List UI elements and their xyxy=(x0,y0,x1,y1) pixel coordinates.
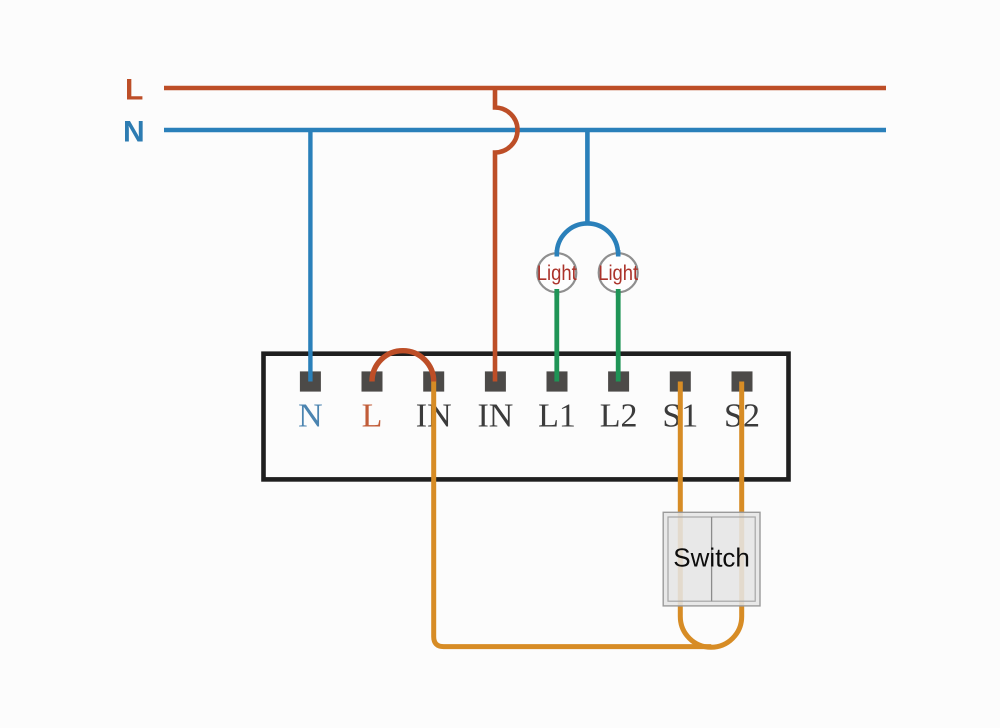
lamp LA2 xyxy=(598,253,638,292)
svg-text:L1: L1 xyxy=(538,398,576,435)
wire tip lamp 2 bottom xyxy=(616,289,621,296)
terminal L2 xyxy=(608,371,629,391)
green wire lamp 2 to terminal L2 xyxy=(616,288,621,382)
terminal L xyxy=(362,371,383,391)
svg-text:Switch: Switch xyxy=(673,543,750,573)
switch divider xyxy=(711,517,713,601)
jumper wire terminal L to terminal IN xyxy=(372,351,434,382)
svg-text:IN: IN xyxy=(477,398,513,435)
wire N rail to lamp fork xyxy=(585,130,590,224)
wire tip into lamp 2 top xyxy=(616,250,621,256)
orange wire terminal IN to switch loop xyxy=(434,382,712,647)
svg-text:L2: L2 xyxy=(600,398,638,435)
orange wire S1 to S2 U-turn through switch xyxy=(680,382,741,648)
svg-text:Light: Light xyxy=(598,261,638,285)
svg-text:N: N xyxy=(298,398,323,435)
terminal S2 xyxy=(732,371,753,391)
terminal S1 xyxy=(670,371,691,391)
svg-text:Light: Light xyxy=(537,261,577,285)
wire N rail to terminal N xyxy=(308,130,312,382)
terminal N xyxy=(300,371,321,391)
lamp LA1 xyxy=(537,253,577,292)
green wire lamp 1 to terminal L1 xyxy=(554,288,559,382)
wire N rail xyxy=(164,128,886,133)
wire lamp fork arch xyxy=(557,223,618,254)
terminal L1 xyxy=(547,371,568,391)
relay module box U1 xyxy=(264,354,789,480)
terminal IN (pin 3) xyxy=(423,371,444,391)
wall switch SW1 body xyxy=(663,512,760,606)
svg-text:L: L xyxy=(362,398,383,435)
svg-text:L: L xyxy=(125,74,143,107)
wire tip lamp 1 bottom xyxy=(554,289,559,296)
svg-text:N: N xyxy=(123,116,145,149)
wire tip into lamp 1 top xyxy=(554,250,559,256)
wire L rail to terminal IN with hop over N xyxy=(495,88,518,382)
wire L rail xyxy=(164,86,886,91)
terminal IN (pin 4) xyxy=(485,371,506,391)
